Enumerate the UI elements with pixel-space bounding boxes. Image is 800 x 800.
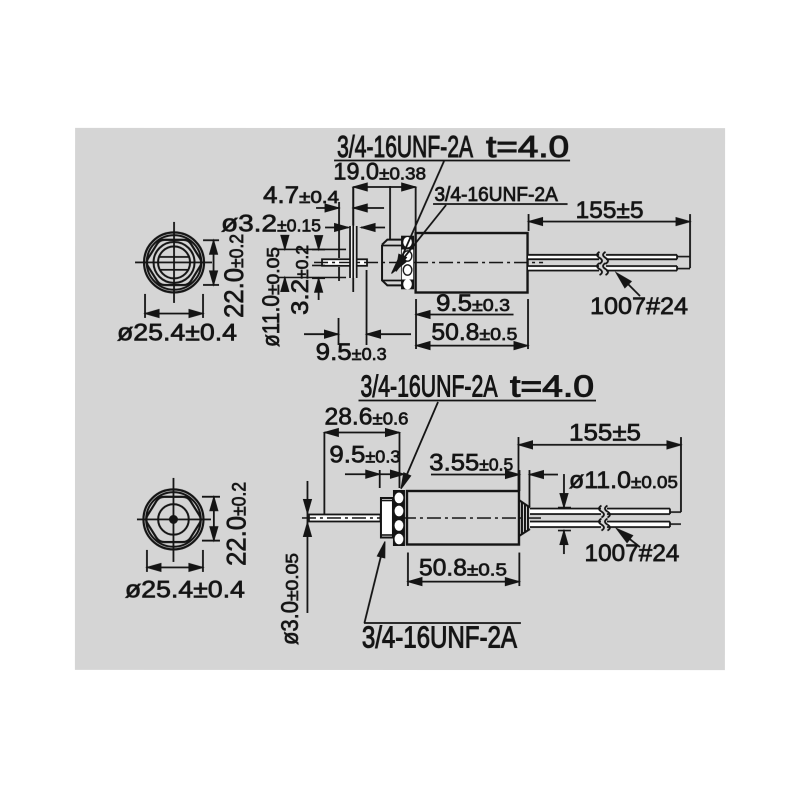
svg-text:ø25.4±0.4: ø25.4±0.4 (125, 576, 245, 603)
bottom front view hex nut outline (146, 497, 201, 542)
svg-text:ø11.0±0.05: ø11.0±0.05 (569, 467, 678, 494)
dim 3.2 +/-0.2 (top, rotated) (312, 249, 325, 251)
bottom front view inner circle (158, 504, 189, 535)
dim dia 11.0 +/-0.05 (bottom) (558, 507, 571, 509)
dim 50.8 +/-0.5 (top) (415, 299, 417, 349)
threaded bushing (382, 240, 401, 286)
top front view centerlines (173, 222, 175, 303)
svg-text:ø3.2±0.15: ø3.2±0.15 (221, 210, 321, 237)
wire 2 (bottom) (530, 522, 601, 528)
top front view inner circle (158, 246, 190, 278)
dim 22.0 +/-0.2 (bottom front view) (202, 496, 220, 498)
extension line x=390 (389, 186, 391, 239)
dim 4.7 +/-0.4 (338, 202, 340, 258)
wire 1 (bottom) (530, 509, 601, 515)
leader to nut from big label (397, 161, 445, 269)
dim 28.6 +/-0.6 (323, 432, 325, 515)
dim 9.5 +/-0.3 (bottom) (379, 470, 381, 488)
bottom front view outer circle (143, 489, 203, 549)
svg-text:155±5: 155±5 (569, 419, 641, 446)
dim 155 +/-5 (bottom) (517, 437, 519, 490)
svg-text:ø3.0±0.05: ø3.0±0.05 (277, 553, 304, 645)
top front view slot chords (159, 256, 189, 258)
dim 155 +/-5 (top) (528, 214, 530, 231)
svg-text:4.7±0.4: 4.7±0.4 (263, 182, 339, 209)
svg-text:3/4-16UNF-2A: 3/4-16UNF-2A (434, 183, 558, 206)
hex nut side view (401, 236, 414, 290)
wire exit taper (bottom) (519, 500, 530, 536)
shaft centerline (314, 261, 543, 263)
dim 9.5 +/-0.3 (under body) (416, 314, 514, 316)
top front view second circle (147, 235, 202, 290)
hex nut side view (bottom) (393, 490, 405, 546)
dim 22.0 +/-0.2 (top front view) (203, 239, 219, 241)
wire 2 (top) (528, 266, 599, 271)
svg-text:3.2±0.2: 3.2±0.2 (287, 245, 314, 315)
svg-text:3/4-16UNF-2A: 3/4-16UNF-2A (337, 130, 473, 164)
dim dia 25.4 +/-0.4 (bottom front view) (146, 550, 148, 572)
svg-text:3/4-16UNF-2A: 3/4-16UNF-2A (362, 620, 518, 654)
bottom front view centerlines (172, 478, 174, 562)
dim dia 11.0 +/-0.05 (top, rotated) (277, 248, 346, 250)
drawing background panel (75, 128, 725, 670)
collar (bottom) (381, 498, 393, 538)
svg-text:50.8±0.5: 50.8±0.5 (419, 555, 507, 582)
svg-text:28.6±0.6: 28.6±0.6 (324, 403, 408, 430)
top front view thread circle (154, 242, 195, 283)
dim dia 3.2 +/-0.15 (325, 226, 349, 228)
dim 50.8 +/-0.5 (bottom) (407, 553, 409, 587)
svg-text:3/4-16UNF-2A: 3/4-16UNF-2A (360, 369, 497, 403)
svg-text:1007#24: 1007#24 (584, 540, 679, 567)
leader arrow to wire (top) (620, 276, 640, 296)
washer plate (350, 226, 357, 278)
svg-text:ø11.0±0.05: ø11.0±0.05 (258, 247, 285, 347)
svg-text:1007#24: 1007#24 (590, 293, 688, 320)
dim dia 3.0 +/-0.05 (rotated) (306, 481, 308, 613)
svg-text:t=4.0: t=4.0 (486, 130, 569, 164)
shaft (top side view) (322, 259, 367, 266)
top front view outer circle (bezel) (144, 232, 204, 292)
bottom front view second circle (146, 492, 201, 547)
dim 9.5 +/-0.3 (below shaft) (366, 270, 368, 345)
wire 1 (top) (528, 255, 599, 259)
shaft (bottom side view) (309, 514, 381, 521)
svg-text:9.5±0.3: 9.5±0.3 (329, 441, 400, 468)
svg-text:3.55±0.5: 3.55±0.5 (429, 450, 513, 477)
svg-text:155±5: 155±5 (576, 197, 644, 224)
wire end stubs (bottom) (670, 511, 681, 513)
shaft centerline (bottom) (302, 517, 545, 519)
wire break marks (bottom) (599, 506, 610, 518)
dim 19.0 +/-0.38 (352, 187, 354, 225)
svg-text:ø25.4±0.4: ø25.4±0.4 (117, 319, 237, 346)
motor body (bottom side view) (407, 491, 519, 545)
dim 3.55 +/-0.5 (518, 470, 520, 491)
motor body (top side view) (416, 233, 528, 293)
leader to nut from small label (393, 205, 447, 272)
leader to nut (bottom top label) (402, 402, 438, 486)
wire break marks (top) (597, 252, 608, 264)
leader to nut bottom (364, 546, 383, 623)
svg-text:9.5±0.3: 9.5±0.3 (316, 339, 387, 366)
svg-text:t=4.0: t=4.0 (510, 370, 594, 404)
leader arrow to wire (bottom) (621, 532, 640, 547)
top front view hex nut outline (147, 240, 202, 285)
bottom front view shaft dot (169, 515, 177, 523)
wire end stubs (top) (677, 256, 690, 258)
svg-text:9.5±0.3: 9.5±0.3 (436, 290, 510, 317)
label 3/4-16UNF-2A (bottom) (364, 622, 521, 624)
dim dia 25.4 +/-0.4 (top front view) (144, 294, 146, 318)
svg-text:50.8±0.5: 50.8±0.5 (431, 319, 517, 346)
